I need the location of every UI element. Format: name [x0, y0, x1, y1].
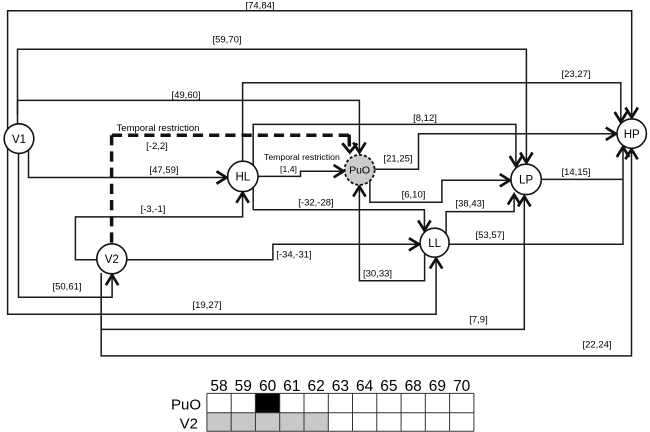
svg-text:[22,24]: [22,24] [582, 340, 611, 351]
wire V2->LL [-34,-31] [127, 244, 419, 259]
wire V1->V2 [50,61] [19, 150, 113, 298]
svg-text:68: 68 [405, 378, 422, 395]
node V2 [97, 244, 127, 274]
svg-text:63: 63 [332, 378, 349, 395]
table header numbers [210, 378, 470, 395]
svg-text:65: 65 [380, 378, 397, 395]
svg-text:[1,4]: [1,4] [280, 164, 297, 174]
svg-text:[53,57]: [53,57] [475, 230, 504, 241]
wire V1->HP [74,84] [8, 11, 632, 130]
svg-text:PuO: PuO [171, 397, 201, 414]
svg-text:PuO: PuO [349, 165, 370, 177]
svg-text:[6,10]: [6,10] [402, 190, 426, 201]
svg-text:64: 64 [356, 378, 374, 395]
table black cell PuO row col 60 [255, 393, 279, 412]
wire HL->HP [23,27] [243, 83, 621, 162]
svg-text:69: 69 [429, 378, 446, 395]
wire V2->HP [22,24] [101, 149, 631, 356]
wire LP->HP [14,15] [541, 178, 623, 180]
svg-text:59: 59 [235, 378, 252, 395]
svg-text:[7,9]: [7,9] [469, 315, 488, 326]
svg-text:[23,27]: [23,27] [561, 69, 590, 80]
wire V2->PuO dashed temporal restriction [-2,2] [112, 135, 358, 244]
wire V2->HL [-3,-1] [75, 193, 242, 260]
wire LL->PuO [30,33] [359, 187, 424, 281]
table timeline grid [171, 378, 474, 432]
svg-text:Temporal restriction: Temporal restriction [117, 123, 200, 134]
wire V1->LP [59,70] [18, 49, 527, 162]
svg-text:[30,33]: [30,33] [363, 269, 392, 280]
node HP [617, 119, 646, 148]
svg-text:[-2,2]: [-2,2] [146, 141, 168, 152]
svg-text:[-32,-28]: [-32,-28] [298, 198, 333, 209]
svg-text:[14,15]: [14,15] [561, 167, 590, 178]
svg-text:60: 60 [259, 378, 277, 395]
wire V1->HL [47,59] [29, 150, 227, 178]
node LL [420, 228, 449, 257]
svg-text:61: 61 [283, 378, 300, 395]
wire V1->LL [19,27] [8, 148, 437, 314]
svg-text:[74,84]: [74,84] [245, 1, 274, 12]
svg-text:[47,59]: [47,59] [149, 165, 178, 176]
table gray cells V2 row [207, 413, 328, 432]
svg-text:58: 58 [210, 378, 227, 395]
table grid lines [207, 393, 474, 431]
svg-text:[-3,-1]: [-3,-1] [141, 204, 166, 215]
svg-text:HP: HP [624, 129, 640, 141]
node V1 [4, 124, 34, 154]
wire PuO->LP [6,10] [370, 180, 510, 202]
svg-text:[19,27]: [19,27] [192, 300, 221, 311]
svg-text:V2: V2 [105, 254, 119, 266]
wire HL->LP [8,12] [253, 124, 516, 209]
svg-text:LL: LL [428, 238, 441, 250]
svg-text:Temporal restriction: Temporal restriction [264, 152, 340, 162]
wire HL->LL [-32,-28] [253, 210, 424, 231]
svg-text:LP: LP [519, 175, 533, 187]
wire V2->LP [7,9] [101, 196, 524, 329]
node LP [511, 164, 541, 194]
svg-text:HL: HL [235, 172, 250, 184]
svg-text:V1: V1 [12, 134, 26, 146]
svg-text:[49,60]: [49,60] [171, 90, 200, 101]
svg-text:[38,43]: [38,43] [455, 198, 484, 209]
wire PuO->HP [21,25] [375, 134, 616, 170]
svg-text:[21,25]: [21,25] [383, 154, 412, 165]
svg-text:70: 70 [453, 378, 471, 395]
svg-text:[8,12]: [8,12] [413, 113, 437, 124]
node PuO [345, 155, 375, 185]
wire HL->PuO [1,4] [258, 171, 344, 176]
wire LL->HP [53,57] [449, 147, 623, 244]
svg-text:[59,70]: [59,70] [212, 35, 241, 46]
svg-text:V2: V2 [180, 416, 198, 432]
wire V1->PuO [49,60] [18, 100, 360, 152]
node HL [228, 161, 258, 191]
svg-text:[-34,-31]: [-34,-31] [276, 250, 311, 261]
svg-text:62: 62 [307, 378, 324, 395]
wire LL->LP [38,43] [446, 195, 514, 234]
svg-text:[50,61]: [50,61] [52, 281, 81, 292]
